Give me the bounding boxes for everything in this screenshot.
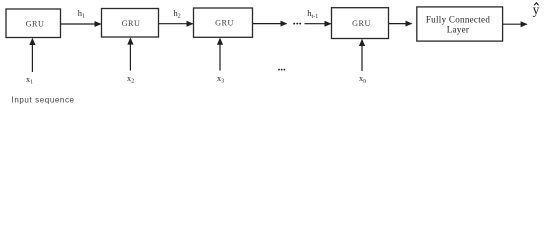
svg-text:Layer: Layer	[447, 25, 469, 35]
GRU cell 4 box	[332, 8, 389, 39]
svg-text:GRU: GRU	[215, 19, 234, 28]
GRU cell 3 box	[194, 8, 253, 37]
input arrow x3	[219, 39, 221, 71]
svg-text:xn: xn	[359, 74, 366, 85]
wire arrow GRU2 to GRU3	[159, 23, 193, 25]
GRU cell 1 box	[6, 9, 61, 38]
svg-text:Input sequence: Input sequence	[12, 96, 75, 105]
input arrow xn	[361, 40, 363, 71]
svg-text:GRU: GRU	[26, 19, 45, 28]
wire arrow ellipsis to GRU4	[305, 23, 331, 25]
GRU cell 2 box	[102, 9, 159, 38]
svg-text:GRU: GRU	[122, 19, 141, 28]
ellipsis between cells	[293, 23, 301, 25]
svg-text:Fully Connected: Fully Connected	[426, 15, 490, 25]
ellipsis between inputs	[278, 69, 285, 71]
wire arrow GRU3 to ellipsis	[253, 23, 287, 25]
input arrow x1	[31, 39, 33, 72]
wire arrow GRU4 to fully connected layer	[389, 23, 412, 25]
svg-text:x1: x1	[26, 75, 33, 86]
svg-text:h1: h1	[78, 8, 85, 20]
svg-text:h2: h2	[174, 8, 181, 20]
svg-text:GRU: GRU	[352, 19, 371, 28]
wire arrow GRU1 to GRU2	[61, 23, 101, 25]
svg-text:ht-1: ht-1	[307, 8, 318, 20]
svg-text:x2: x2	[127, 74, 134, 85]
wire arrow output	[503, 23, 527, 25]
fully connected layer box	[417, 7, 503, 41]
input arrow x2	[129, 39, 131, 71]
svg-text:x3: x3	[217, 74, 224, 85]
